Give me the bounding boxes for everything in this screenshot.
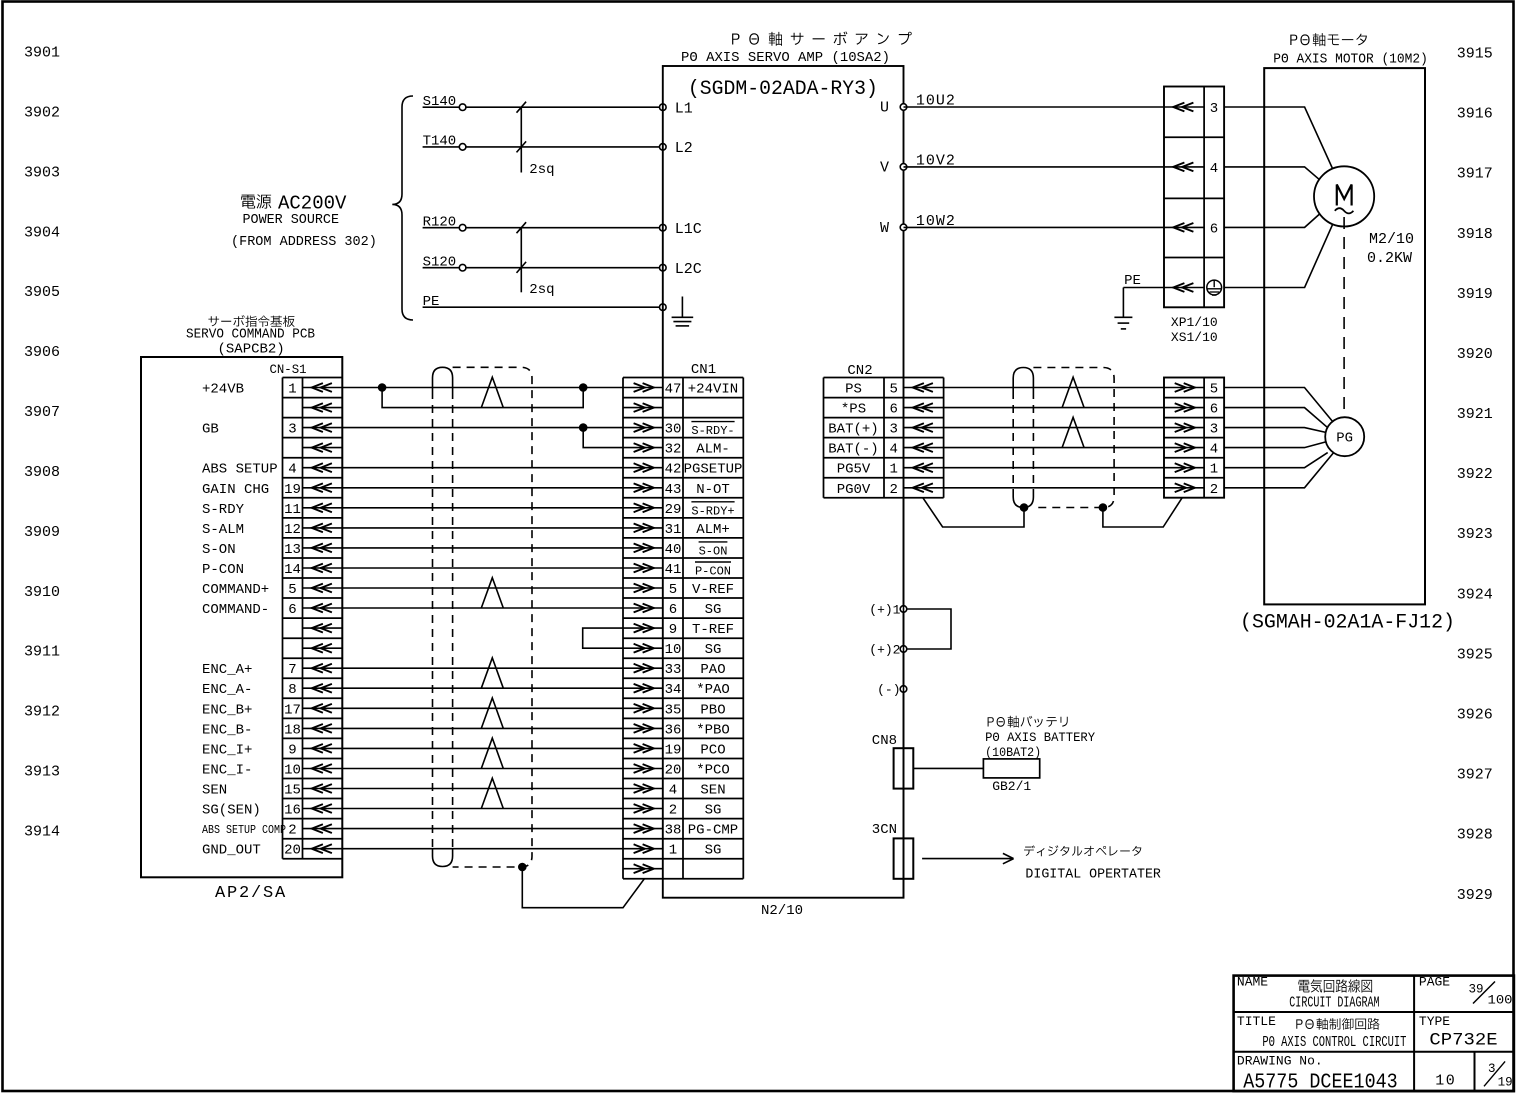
svg-text:(10BAT2): (10BAT2) <box>985 746 1041 760</box>
svg-text:NAME: NAME <box>1237 975 1268 990</box>
svg-text:12: 12 <box>284 522 301 538</box>
wire motor lead <box>1224 225 1332 288</box>
CN1 arrow row 0 <box>623 387 663 389</box>
svg-text:CN8: CN8 <box>872 733 897 749</box>
svg-text:*PS: *PS <box>841 402 866 418</box>
twisted pair mark BAT <box>1062 417 1084 447</box>
svg-text:10V2: 10V2 <box>916 152 956 169</box>
svg-text:SG: SG <box>705 602 722 618</box>
svg-text:3925: 3925 <box>1457 646 1493 663</box>
svg-text:5: 5 <box>1210 382 1218 398</box>
terminal circle S140 <box>459 104 466 111</box>
junction dot +24V right <box>579 383 588 392</box>
wire CN-S1 row 14 to CN1 <box>342 667 623 669</box>
connector 3CN box <box>894 838 914 878</box>
CN2 arrow row 4 <box>904 467 944 469</box>
svg-text:3928: 3928 <box>1457 827 1493 844</box>
connector CN-S1 pin grid <box>282 378 284 859</box>
svg-text:3915: 3915 <box>1457 46 1493 63</box>
svg-text:2sq: 2sq <box>529 282 554 298</box>
CN-S1 arrow row 2 <box>303 427 343 429</box>
title motor JP <box>1290 33 1367 46</box>
svg-text:(SAPCB2): (SAPCB2) <box>218 342 285 358</box>
amp terminal PE <box>660 304 667 311</box>
svg-text:3902: 3902 <box>24 104 60 121</box>
svg-text:4: 4 <box>889 442 897 458</box>
CN1 arrow row 13 <box>623 647 663 649</box>
motor shaft dashed link <box>1343 217 1345 417</box>
twisted pair mark rows 18-19 <box>481 738 503 768</box>
wire CN-S1 row 18 to CN1 <box>342 747 623 749</box>
wire CN-S1 row 17 to CN1 <box>342 727 623 729</box>
wire PE motor side <box>1123 287 1164 289</box>
svg-text:S120: S120 <box>423 255 457 271</box>
svg-text:N2/10: N2/10 <box>761 903 803 919</box>
gauge slash 2 <box>517 262 527 273</box>
wire CN2 row 0 to XS <box>944 387 1164 389</box>
wire CN-S1 row 2 to CN1 <box>342 427 623 429</box>
svg-text:9: 9 <box>288 742 296 758</box>
svg-text:5: 5 <box>669 582 677 598</box>
svg-text:TYPE: TYPE <box>1419 1014 1450 1029</box>
wire PG lead 2 <box>1224 453 1334 488</box>
CN1 arrow row 21 <box>623 808 663 810</box>
svg-text:11: 11 <box>284 502 301 518</box>
svg-text:3: 3 <box>1210 422 1218 438</box>
CN1 arrow row 8 <box>623 547 663 549</box>
svg-text:1: 1 <box>288 382 296 398</box>
title servo amp JP <box>732 32 912 46</box>
cable shield bottom cap <box>433 849 453 867</box>
servo amp box (10SA2) <box>663 66 904 898</box>
CN-S1 arrow row 17 <box>303 727 343 729</box>
wire 2sq gauge tie <box>520 107 522 172</box>
gauge slash 1 <box>517 222 527 233</box>
svg-text:COMMAND+: COMMAND+ <box>202 582 269 598</box>
CN1 arrow row 6 <box>623 507 663 509</box>
svg-text:(-): (-) <box>877 683 900 698</box>
svg-text:3907: 3907 <box>24 404 60 421</box>
CN-S1 arrow row 8 <box>303 547 343 549</box>
svg-text:ENC_A+: ENC_A+ <box>202 662 252 678</box>
CN1 arrow row 22 <box>623 828 663 830</box>
svg-text:36: 36 <box>665 722 682 738</box>
CN1 arrow row 7 <box>623 527 663 529</box>
cable shield left dashed walls <box>432 391 434 849</box>
CN2 arrow row 0 <box>904 387 944 389</box>
CN2 arrow row 1 <box>904 407 944 409</box>
wire CN-S1 row 15 to CN1 <box>342 687 623 689</box>
svg-text:PΘ AXIS BATTERY: PΘ AXIS BATTERY <box>985 731 1095 745</box>
CN-S1 arrow row 16 <box>303 707 343 709</box>
svg-text:P-CON: P-CON <box>695 565 731 579</box>
svg-text:PS: PS <box>845 382 862 398</box>
wire CN-S1 row 22 to CN1 <box>342 828 623 830</box>
svg-text:*PBO: *PBO <box>696 722 730 738</box>
CN-S1 arrow row 11 <box>303 607 343 609</box>
cable shield top cap <box>433 367 453 391</box>
CN-S1 arrow row 4 <box>303 467 343 469</box>
XS arrow 1 <box>1164 467 1204 469</box>
wire +24V return loop <box>382 388 583 408</box>
svg-text:32: 32 <box>665 442 682 458</box>
svg-text:3923: 3923 <box>1457 526 1493 543</box>
CN1 arrow row 24 <box>623 868 663 870</box>
junction dot +24V left <box>378 383 387 392</box>
twisted pair mark PS <box>1062 377 1084 407</box>
svg-text:S-RDY-: S-RDY- <box>691 424 734 438</box>
CN1 arrow row 12 <box>623 627 663 629</box>
svg-text:3: 3 <box>288 422 296 438</box>
svg-text:TITLE: TITLE <box>1237 1014 1276 1029</box>
CN-S1 arrow row 3 <box>303 447 343 449</box>
svg-text:2: 2 <box>288 823 296 839</box>
CN1 arrow row 3 <box>623 447 663 449</box>
svg-text:6: 6 <box>669 602 677 618</box>
amp terminal U <box>900 104 907 111</box>
wire CN-S1 row 16 to CN1 <box>342 707 623 709</box>
connector XS PG box <box>1164 378 1224 498</box>
svg-text:A5775 DCEE1043: A5775 DCEE1043 <box>1243 1071 1398 1094</box>
twisted pair mark rows 14-15 <box>481 658 503 688</box>
svg-text:40: 40 <box>665 542 682 558</box>
svg-text:19: 19 <box>665 742 682 758</box>
XS arrow 6 <box>1164 407 1204 409</box>
title block title JP <box>1296 1018 1379 1030</box>
CN-S1 arrow row 12 <box>303 627 343 629</box>
motor box (10M2) <box>1264 68 1425 604</box>
svg-text:3906: 3906 <box>24 344 60 361</box>
shield junction dot <box>518 863 527 872</box>
wire PG lead 5 <box>1224 388 1332 422</box>
wire CN-S1 row 11 to CN1 <box>342 607 623 609</box>
svg-text:6: 6 <box>1210 402 1218 418</box>
amp terminal L1C <box>660 224 667 231</box>
motor letter M <box>1337 185 1352 206</box>
terminal circle S120 <box>459 264 466 271</box>
svg-text:S-ON: S-ON <box>699 544 728 558</box>
CN1 arrow row 23 <box>623 848 663 850</box>
svg-text:38: 38 <box>665 823 682 839</box>
svg-text:CN-S1: CN-S1 <box>270 362 307 377</box>
arrow to digital operator <box>922 858 1012 860</box>
svg-text:33: 33 <box>665 662 682 678</box>
svg-text:S-ALM: S-ALM <box>202 522 244 538</box>
XP arrow 6 <box>1164 226 1204 228</box>
svg-text:20: 20 <box>284 843 301 859</box>
gauge slash 2 <box>517 141 527 152</box>
svg-text:*PAO: *PAO <box>696 682 730 698</box>
junction dot GB <box>579 423 588 432</box>
svg-text:2sq: 2sq <box>529 162 554 178</box>
svg-text:T140: T140 <box>423 134 457 150</box>
wire T140 <box>423 146 663 148</box>
wire CN-S1 row 19 to CN1 <box>342 768 623 770</box>
XP arrow 4 <box>1164 166 1204 168</box>
svg-text:CP732E: CP732E <box>1429 1030 1497 1050</box>
svg-text:3924: 3924 <box>1457 586 1493 603</box>
twisted pair mark rows 16-17 <box>481 698 503 728</box>
wire CN-S1 row 6 to CN1 <box>342 507 623 509</box>
wire CN-S1 row 20 to CN1 <box>342 788 623 790</box>
svg-text:GAIN CHG: GAIN CHG <box>202 482 269 498</box>
twisted pair mark rows 20-21 <box>481 778 503 808</box>
svg-text:CN2: CN2 <box>847 363 872 379</box>
wire PG lead 6 <box>1224 408 1328 428</box>
svg-text:PG0V: PG0V <box>837 482 871 498</box>
svg-text:ABS SETUP COMP: ABS SETUP COMP <box>202 823 286 837</box>
svg-text:PE: PE <box>1124 273 1141 289</box>
twisted pair mark rows 10-11 <box>481 578 503 608</box>
svg-text:ALM+: ALM+ <box>696 522 730 538</box>
svg-text:AC200V: AC200V <box>278 193 347 215</box>
svg-text:100: 100 <box>1488 994 1513 1008</box>
CN1 arrow row 1 <box>623 407 663 409</box>
svg-text:PAGE: PAGE <box>1419 975 1450 990</box>
svg-text:31: 31 <box>665 522 682 538</box>
wire CN-S1 row 21 to CN1 <box>342 808 623 810</box>
CN-S1 arrow row 21 <box>303 808 343 810</box>
CN-S1 arrow row 18 <box>303 747 343 749</box>
svg-text:PG: PG <box>1336 431 1353 447</box>
cable2 shield dot right <box>1099 503 1108 512</box>
svg-text:3929: 3929 <box>1457 887 1493 904</box>
svg-text:4: 4 <box>288 462 296 478</box>
CN1 arrow row 17 <box>623 727 663 729</box>
svg-text:(SGMAH-02A1A-FJ12): (SGMAH-02A1A-FJ12) <box>1240 612 1455 635</box>
wire CN8 to battery <box>913 767 983 769</box>
CN-S1 arrow row 19 <box>303 768 343 770</box>
svg-text:41: 41 <box>665 562 682 578</box>
svg-text:10U2: 10U2 <box>916 93 956 110</box>
svg-text:3903: 3903 <box>24 164 60 181</box>
svg-text:GB: GB <box>202 422 219 438</box>
svg-text:SG(SEN): SG(SEN) <box>202 803 261 819</box>
svg-text:POWER SOURCE: POWER SOURCE <box>243 213 340 228</box>
svg-text:U: U <box>880 100 889 117</box>
wire GB branch to ALM- <box>583 428 623 448</box>
label battery JP <box>988 716 1068 728</box>
wire PG lead 4 <box>1224 442 1326 448</box>
CN-S1 arrow row 10 <box>303 587 343 589</box>
svg-text:29: 29 <box>665 502 682 518</box>
svg-text:3908: 3908 <box>24 464 60 481</box>
svg-text:BAT(-): BAT(-) <box>828 442 878 458</box>
connector CN8 box <box>894 748 914 788</box>
svg-text:PE: PE <box>423 294 440 310</box>
wire PE <box>423 306 663 308</box>
connector CN2 grid <box>823 378 825 498</box>
svg-text:3919: 3919 <box>1457 286 1493 303</box>
svg-text:PΘ AXIS SERVO AMP (10SA2): PΘ AXIS SERVO AMP (10SA2) <box>681 50 890 66</box>
svg-text:P-CON: P-CON <box>202 562 244 578</box>
svg-text:3904: 3904 <box>24 224 60 241</box>
terminal circle R120 <box>459 224 466 231</box>
label servo command pcb JP <box>208 315 294 327</box>
title block name JP <box>1298 979 1372 992</box>
CN1 arrow row 14 <box>623 667 663 669</box>
svg-text:1: 1 <box>889 462 897 478</box>
CN1 arrow row 4 <box>623 467 663 469</box>
ground motor PE <box>1122 288 1124 318</box>
svg-text:14: 14 <box>284 562 301 578</box>
svg-text:13: 13 <box>284 542 301 558</box>
svg-text:DRAWING No.: DRAWING No. <box>1237 1054 1323 1069</box>
cable shield outline <box>453 367 532 867</box>
svg-text:GB2/1: GB2/1 <box>992 779 1031 794</box>
svg-text:DIGITAL OPERTATER: DIGITAL OPERTATER <box>1025 868 1161 883</box>
svg-text:2: 2 <box>669 803 677 819</box>
wire PG lead 1 <box>1224 453 1328 468</box>
svg-text:+24VB: +24VB <box>202 382 244 398</box>
svg-text:L1C: L1C <box>675 221 702 238</box>
CN-S1 arrow row 7 <box>303 527 343 529</box>
encoder circle PG <box>1325 417 1364 456</box>
battery GB2/1 box <box>983 759 1039 778</box>
CN1 arrow row 2 <box>623 427 663 429</box>
svg-text:6: 6 <box>288 602 296 618</box>
svg-text:R120: R120 <box>423 215 457 231</box>
svg-text:GND_OUT: GND_OUT <box>202 843 261 859</box>
svg-text:7: 7 <box>288 662 296 678</box>
svg-text:4: 4 <box>669 783 677 799</box>
cable2 shield drain left <box>923 498 1024 527</box>
XP arrow PE <box>1164 287 1204 289</box>
svg-text:L2: L2 <box>675 140 693 157</box>
svg-text:6: 6 <box>1210 221 1218 237</box>
svg-text:3913: 3913 <box>24 764 60 781</box>
svg-text:47: 47 <box>665 382 682 398</box>
svg-text:15: 15 <box>284 783 301 799</box>
svg-text:3918: 3918 <box>1457 226 1493 243</box>
wire amp right rail <box>903 498 905 898</box>
terminal (+)1 <box>900 606 907 613</box>
svg-text:35: 35 <box>665 702 682 718</box>
svg-text:3927: 3927 <box>1457 767 1493 784</box>
svg-text:3921: 3921 <box>1457 406 1493 423</box>
svg-text:42: 42 <box>665 462 682 478</box>
XP arrow 3 <box>1164 106 1204 108</box>
XS arrow 4 <box>1164 447 1204 449</box>
cable2 shield top cap <box>1013 368 1033 392</box>
XS arrow 3 <box>1164 427 1204 429</box>
CN-S1 arrow row 20 <box>303 788 343 790</box>
XS arrow 5 <box>1164 387 1204 389</box>
svg-text:V-REF: V-REF <box>692 582 734 598</box>
label digital operator JP <box>1024 845 1141 856</box>
svg-text:PG5V: PG5V <box>837 462 871 478</box>
svg-text:1: 1 <box>669 843 677 859</box>
wire 2sq gauge tie <box>520 228 522 293</box>
wire CN-S1 row 7 to CN1 <box>342 527 623 529</box>
svg-text:ENC_B-: ENC_B- <box>202 722 252 738</box>
CN1 arrow row 16 <box>623 707 663 709</box>
svg-text:3926: 3926 <box>1457 707 1493 724</box>
svg-text:3909: 3909 <box>24 524 60 541</box>
wire 10V2 <box>904 166 1165 168</box>
twisted pair mark rows 0-1 <box>481 377 503 407</box>
svg-text:19: 19 <box>284 482 301 498</box>
svg-text:(+)1: (+)1 <box>869 603 900 618</box>
CN1 arrow row 11 <box>623 607 663 609</box>
svg-text:S140: S140 <box>423 94 457 110</box>
svg-text:COMMAND-: COMMAND- <box>202 602 269 618</box>
svg-text:AP2/SA: AP2/SA <box>215 884 287 903</box>
svg-text:S-RDY: S-RDY <box>202 502 245 518</box>
connector CN-S1 outer box <box>141 357 342 877</box>
wire jumper T-REF to SG <box>583 628 623 648</box>
svg-text:ENC_B+: ENC_B+ <box>202 702 252 718</box>
wire CN2 row 2 to XS <box>944 427 1164 429</box>
svg-text:XP1/10: XP1/10 <box>1171 315 1218 330</box>
wire PG lead 3 <box>1224 428 1326 433</box>
svg-text:8: 8 <box>288 682 296 698</box>
svg-text:ABS SETUP: ABS SETUP <box>202 462 278 478</box>
cable2 shield dashed walls <box>1012 391 1014 490</box>
svg-text:SG: SG <box>705 803 722 819</box>
CN-S1 arrow row 1 <box>303 407 343 409</box>
svg-text:2: 2 <box>889 482 897 498</box>
svg-text:L2C: L2C <box>675 261 702 278</box>
svg-text:1: 1 <box>1210 462 1218 478</box>
brace power source <box>392 96 413 320</box>
svg-text:(+)2: (+)2 <box>869 643 900 658</box>
wire CN-S1 row 23 to CN1 <box>342 848 623 850</box>
svg-text:BAT(+): BAT(+) <box>828 422 878 438</box>
svg-text:3911: 3911 <box>24 644 60 661</box>
gauge slash 1 <box>517 102 527 113</box>
svg-text:ALM-: ALM- <box>696 442 730 458</box>
wire R120 <box>423 227 663 229</box>
svg-text:10: 10 <box>665 642 682 658</box>
label power source JP <box>241 194 271 208</box>
amp terminal L1 <box>660 104 667 111</box>
svg-text:6: 6 <box>889 402 897 418</box>
CN1 arrow row 5 <box>623 487 663 489</box>
XS arrow 2 <box>1164 487 1204 489</box>
CN1 arrow row 10 <box>623 587 663 589</box>
CN1 arrow row 20 <box>623 788 663 790</box>
svg-text:0.2KW: 0.2KW <box>1367 250 1412 267</box>
wire motor lead <box>1224 167 1321 181</box>
svg-text:2: 2 <box>1210 482 1218 498</box>
svg-text:T-REF: T-REF <box>692 622 734 638</box>
amp terminal V <box>900 164 907 171</box>
svg-text:(SGDM-02ADA-RY3): (SGDM-02ADA-RY3) <box>688 78 878 101</box>
svg-text:XS1/10: XS1/10 <box>1171 330 1218 345</box>
cable2 shield outline <box>1033 368 1114 508</box>
cable2 shield bottom cap <box>1013 490 1033 508</box>
svg-text:V: V <box>880 159 889 176</box>
svg-text:3914: 3914 <box>24 824 60 841</box>
svg-text:PG-CMP: PG-CMP <box>688 823 738 839</box>
svg-text:ENC_I+: ENC_I+ <box>202 742 252 758</box>
svg-text:+24VIN: +24VIN <box>688 382 738 398</box>
svg-text:ENC_A-: ENC_A- <box>202 682 252 698</box>
CN1 arrow row 19 <box>623 768 663 770</box>
wire CN-S1 row 8 to CN1 <box>342 547 623 549</box>
wire battery bracket <box>907 609 951 649</box>
connector XP1/XS1 power box <box>1164 87 1224 308</box>
svg-text:PBO: PBO <box>700 702 725 718</box>
wire CN2 row 5 to XS <box>944 487 1164 489</box>
shield drain wire <box>522 867 644 908</box>
XP pin PE symbol <box>1207 280 1222 295</box>
CN1 arrow row 9 <box>623 567 663 569</box>
wire CN2 row 3 to XS <box>944 447 1164 449</box>
connector CN1 grid <box>622 378 624 879</box>
svg-text:34: 34 <box>665 682 682 698</box>
